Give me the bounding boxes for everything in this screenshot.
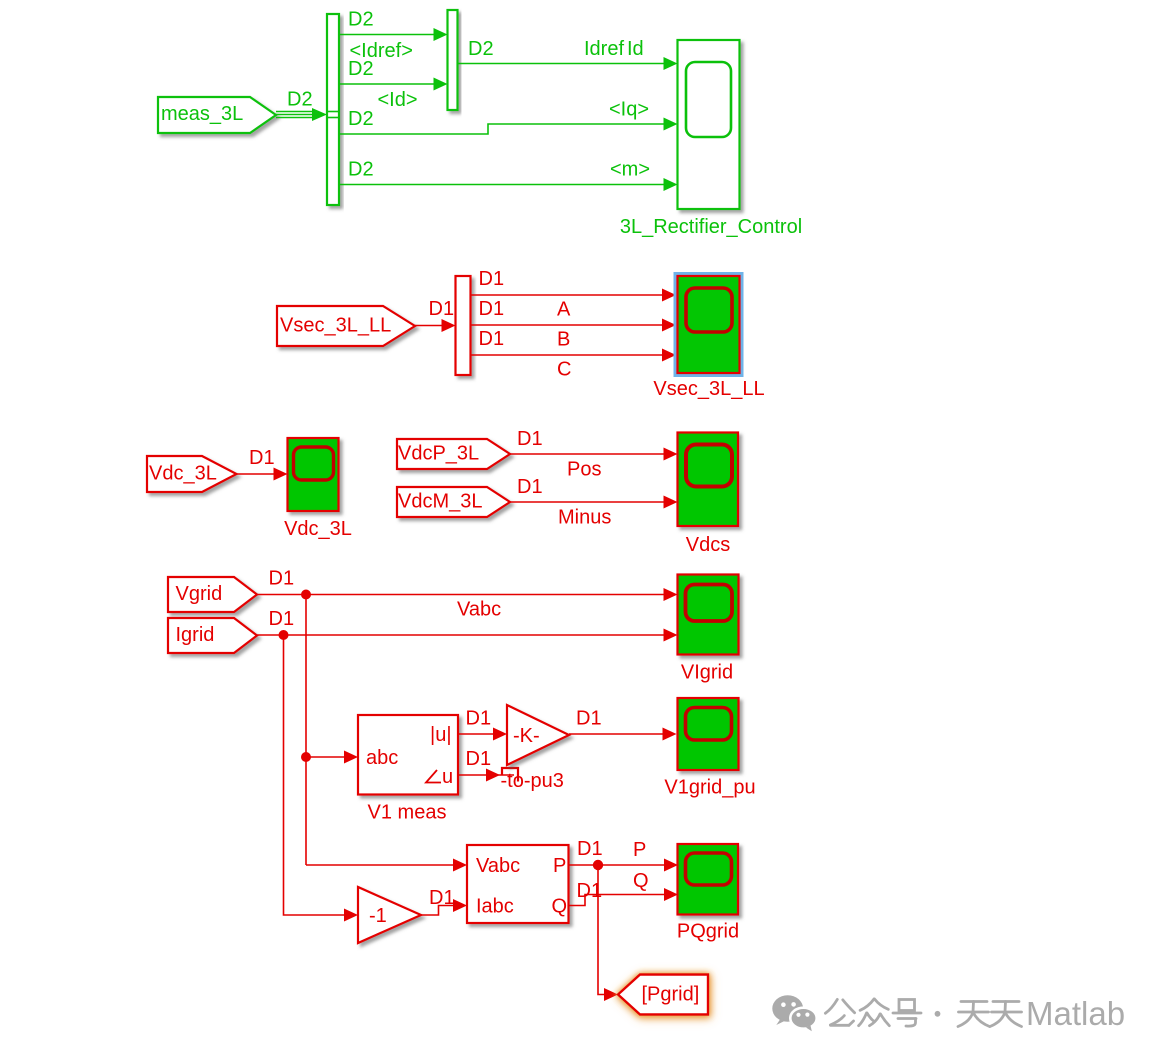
- input tag Vdc_3L: [147, 456, 237, 492]
- scope PQgrid: [678, 844, 739, 915]
- wire Pos: [510, 453, 664, 455]
- wire selector out4 (m): [339, 184, 664, 186]
- svg-text:-to-pu3: -to-pu3: [501, 770, 564, 792]
- wire selector out3 (Iq): [339, 124, 664, 134]
- svg-text:P: P: [633, 839, 646, 861]
- svg-text:Q: Q: [552, 896, 568, 918]
- svg-text:D1: D1: [577, 838, 603, 860]
- wire demux out C: [471, 354, 663, 356]
- scope Vdc_3L: [288, 438, 339, 511]
- svg-text:Vsec_3L_LL: Vsec_3L_LL: [653, 378, 764, 400]
- glyph zhong: [859, 999, 890, 1026]
- wire demux out A: [471, 294, 663, 296]
- svg-text:D1: D1: [269, 608, 295, 630]
- wire P out: [569, 864, 665, 866]
- svg-text:Id: Id: [627, 38, 644, 60]
- junction igrid: [279, 630, 289, 640]
- label angle-u port: [426, 770, 441, 783]
- svg-text:D1: D1: [269, 568, 295, 590]
- svg-text:Vgrid: Vgrid: [176, 583, 223, 605]
- svg-text:D1: D1: [517, 476, 543, 498]
- svg-text:D2: D2: [348, 108, 374, 130]
- svg-text:<Iq>: <Iq>: [609, 99, 649, 121]
- demux U3: [456, 276, 471, 375]
- svg-text:<m>: <m>: [610, 159, 650, 181]
- wire Q out: [569, 895, 665, 906]
- svg-text:3L_Rectifier_Control: 3L_Rectifier_Control: [620, 216, 802, 238]
- svg-text:D1: D1: [429, 298, 455, 320]
- wire vgrid vertical: [305, 595, 307, 866]
- junction vgrid: [301, 590, 311, 600]
- svg-text:Pos: Pos: [567, 459, 601, 481]
- svg-text:VdcP_3L: VdcP_3L: [398, 443, 479, 465]
- wire to V1 meas: [306, 756, 345, 758]
- glyph gong: [825, 999, 854, 1025]
- svg-text:D1: D1: [466, 748, 492, 770]
- svg-text:meas_3L: meas_3L: [161, 103, 243, 125]
- svg-text:Vdc_3L: Vdc_3L: [149, 463, 217, 485]
- svg-text:D2: D2: [348, 159, 374, 181]
- wire tag to demux: [415, 325, 442, 327]
- junction pgrid: [593, 860, 603, 870]
- wire Vabc: [257, 594, 664, 596]
- wire Vdc_3L: [237, 473, 275, 475]
- input tag Igrid: [168, 618, 257, 653]
- svg-text:D1: D1: [249, 447, 275, 469]
- wire igrid vertical: [284, 635, 345, 915]
- svg-text:D1: D1: [517, 428, 543, 450]
- svg-text:Minus: Minus: [558, 507, 611, 529]
- svg-text:u: u: [442, 766, 453, 788]
- wire selector out1: [339, 34, 434, 36]
- svg-text:Vdc_3L: Vdc_3L: [284, 518, 352, 540]
- svg-text:D2: D2: [468, 38, 494, 60]
- svg-text:PQgrid: PQgrid: [677, 921, 739, 943]
- input tag Vgrid: [168, 577, 257, 612]
- svg-text:Iabc: Iabc: [476, 896, 514, 918]
- scope Vsec_3L_LL (selected): [674, 272, 744, 377]
- svg-text:C: C: [557, 359, 571, 381]
- svg-text:D2: D2: [348, 9, 374, 31]
- wechat icon: [772, 995, 816, 1031]
- svg-text:Vdcs: Vdcs: [686, 534, 730, 556]
- svg-text:A: A: [557, 299, 571, 321]
- svg-text:V1 meas: V1 meas: [368, 802, 447, 824]
- wire U2 out: [458, 63, 665, 65]
- svg-text:Q: Q: [633, 870, 649, 892]
- svg-text:Vsec_3L_LL: Vsec_3L_LL: [280, 315, 391, 337]
- svg-text:|u|: |u|: [430, 724, 452, 746]
- svg-text:D1: D1: [479, 268, 505, 290]
- scope Vdcs: [678, 433, 739, 527]
- gain -K-: [507, 705, 569, 765]
- scope 3L_Rectifier_Control: [678, 40, 740, 209]
- input tag meas_3L: [158, 97, 276, 133]
- input tag Vsec_3L_LL: [277, 306, 415, 346]
- gain -1: [358, 887, 421, 943]
- svg-text:Vabc: Vabc: [476, 855, 520, 877]
- selector U2: [448, 10, 458, 110]
- glyph tian 2: [990, 1002, 1022, 1027]
- wire vgrid to PQ Vabc: [306, 864, 454, 866]
- port mark on selector: [327, 112, 339, 118]
- wire u-abs to gain: [458, 733, 494, 735]
- glyph hao: [893, 1000, 921, 1027]
- svg-text:abc: abc: [366, 747, 398, 769]
- svg-text:D1: D1: [466, 708, 492, 730]
- svg-text:B: B: [557, 329, 570, 351]
- wire Igrid: [257, 634, 664, 636]
- svg-text:P: P: [553, 855, 566, 877]
- svg-text:VdcM_3L: VdcM_3L: [398, 491, 483, 513]
- bus selector U1: [327, 14, 339, 205]
- svg-text:D1: D1: [479, 328, 505, 350]
- svg-text:D1: D1: [429, 887, 455, 909]
- svg-text:D1: D1: [479, 298, 505, 320]
- wire gain-1 to Iabc: [421, 906, 454, 916]
- terminator T1: [502, 768, 518, 782]
- scope V1grid_pu: [678, 698, 739, 770]
- svg-text:Idref: Idref: [584, 38, 624, 60]
- svg-text:Igrid: Igrid: [176, 624, 215, 646]
- glyph tian 1: [958, 1002, 990, 1027]
- middle dot: [935, 1011, 941, 1017]
- svg-text:D2: D2: [348, 58, 374, 80]
- wire demux out B: [471, 324, 663, 326]
- svg-text:[Pgrid]: [Pgrid]: [642, 984, 700, 1006]
- wire gain to scope: [569, 733, 663, 735]
- goto tag Pgrid: [618, 975, 708, 1015]
- svg-text:D1: D1: [576, 708, 602, 730]
- scope VIgrid: [678, 575, 739, 655]
- wire angle-u to terminator: [458, 774, 514, 776]
- svg-text:VIgrid: VIgrid: [681, 662, 733, 684]
- wire selector out2: [339, 83, 434, 85]
- block V1 meas: [358, 715, 458, 795]
- svg-text:Vabc: Vabc: [457, 599, 501, 621]
- svg-text:V1grid_pu: V1grid_pu: [664, 777, 755, 799]
- wire P to goto tag: [598, 865, 605, 995]
- svg-text:<Id>: <Id>: [378, 89, 418, 111]
- block PQ: [467, 845, 569, 923]
- svg-text:-1: -1: [369, 905, 387, 927]
- input tag VdcM_3L: [397, 487, 510, 517]
- junction v1meas: [301, 752, 311, 762]
- svg-text:-K-: -K-: [513, 725, 540, 747]
- svg-text:Matlab: Matlab: [1026, 995, 1125, 1032]
- input tag VdcP_3L: [397, 439, 510, 469]
- svg-text:D2: D2: [287, 89, 313, 111]
- wire Minus: [510, 501, 664, 503]
- wire bus D2 (triple line): [276, 112, 313, 118]
